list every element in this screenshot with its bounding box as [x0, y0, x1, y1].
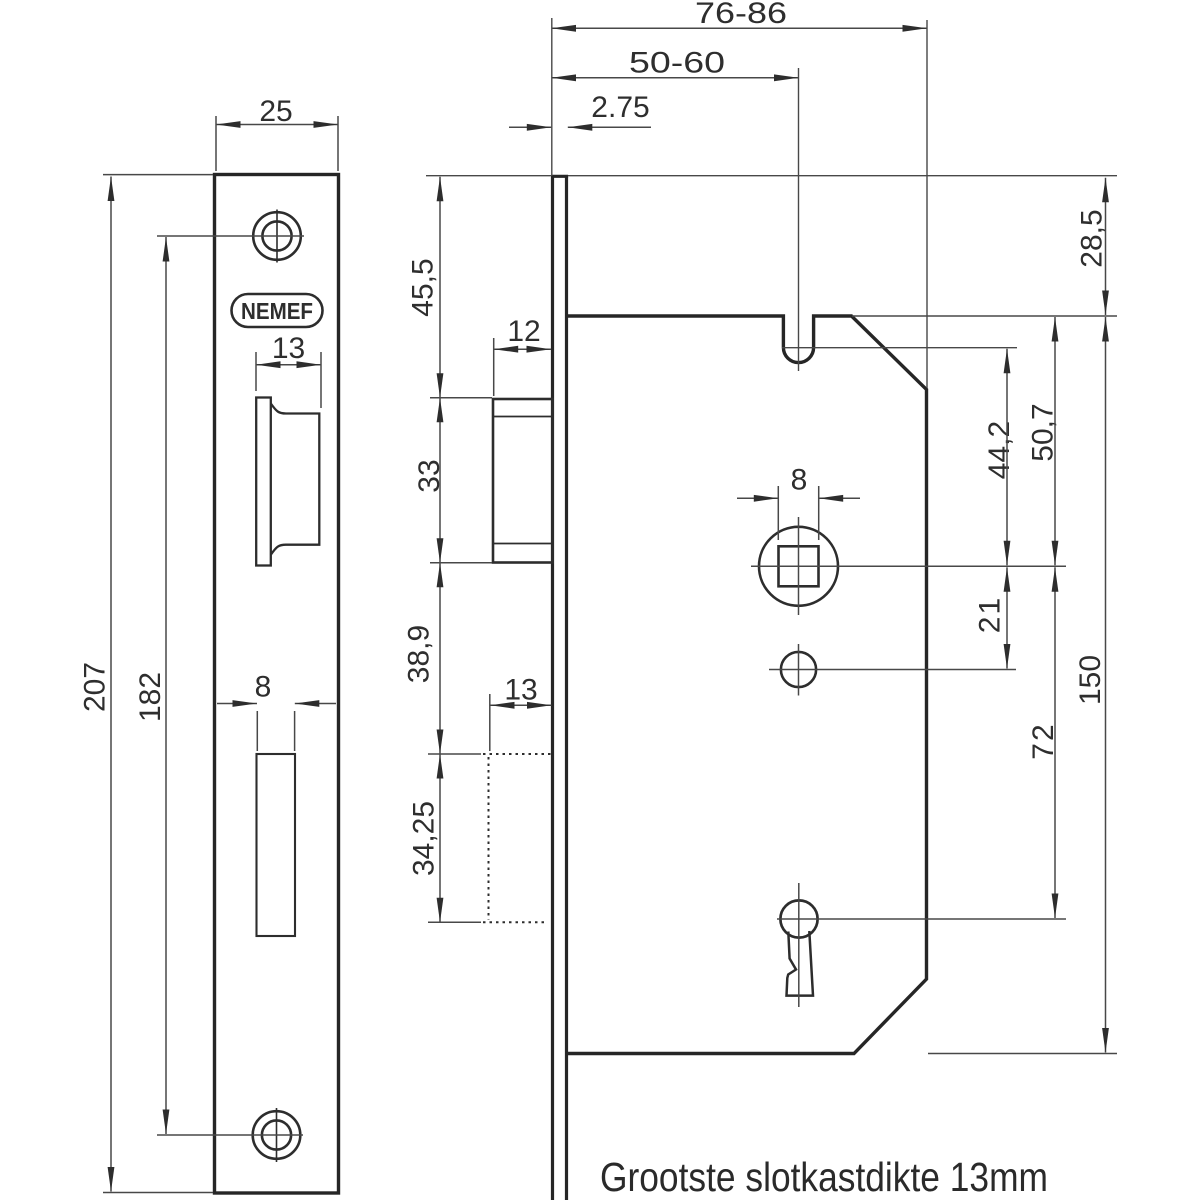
cylinder fixing screw hole	[781, 652, 816, 687]
right side extension lines	[852, 315, 1117, 317]
svg-text:8: 8	[791, 464, 808, 497]
latch pocket (front view)	[256, 398, 271, 566]
left view: strike plate outline	[215, 175, 339, 1194]
bottom screw crosshair	[276, 1108, 278, 1162]
svg-text:150: 150	[1074, 655, 1107, 705]
svg-text:13: 13	[504, 674, 537, 707]
keyhole crosshair	[798, 883, 800, 1007]
NEMEF logo	[232, 294, 323, 327]
bottom screw hole	[253, 1111, 301, 1159]
side view: faceplate strip	[551, 177, 554, 1200]
svg-text:8: 8	[255, 671, 272, 704]
cylinder hole crosshair	[798, 644, 800, 696]
svg-text:13: 13	[272, 332, 305, 365]
side view: lock case outline with follower notch and chamfers	[568, 316, 927, 1054]
keyhole slot (front view)	[257, 754, 296, 936]
svg-text:21: 21	[974, 596, 1007, 633]
svg-text:34,25: 34,25	[408, 801, 441, 876]
svg-text:NEMEF: NEMEF	[241, 298, 313, 324]
svg-text:25: 25	[259, 95, 292, 128]
top screw crosshair	[276, 210, 278, 263]
svg-text:182: 182	[134, 672, 167, 722]
svg-text:207: 207	[79, 662, 112, 712]
svg-text:38,9: 38,9	[403, 625, 436, 683]
spindle crosshair	[798, 517, 800, 615]
hidden keyhole escutcheon (dotted)	[483, 753, 552, 755]
keyhole	[780, 900, 817, 937]
svg-text:76-86: 76-86	[695, 0, 787, 30]
svg-text:44,2: 44,2	[983, 421, 1016, 479]
top screw hole	[253, 212, 301, 260]
svg-text:Grootste slotkastdikte 13mm: Grootste slotkastdikte 13mm	[600, 1154, 1048, 1200]
latch bolt (side view)	[493, 399, 553, 563]
svg-text:2.75: 2.75	[591, 91, 649, 124]
svg-text:28,5: 28,5	[1076, 209, 1109, 267]
svg-text:33: 33	[413, 459, 446, 492]
svg-text:45,5: 45,5	[407, 258, 440, 316]
extension line at faceplate top level	[426, 175, 1117, 177]
svg-text:50-60: 50-60	[629, 47, 725, 80]
svg-text:12: 12	[507, 315, 540, 348]
spindle follower: circle and 8mm square	[759, 527, 838, 606]
